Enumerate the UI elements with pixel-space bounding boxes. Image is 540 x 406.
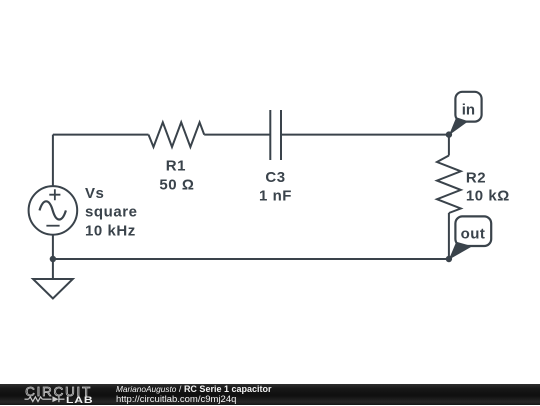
svg-text:C3: C3	[265, 169, 285, 186]
svg-text:square: square	[85, 204, 138, 221]
svg-text:R2: R2	[466, 169, 486, 186]
svg-text:in: in	[462, 102, 475, 119]
svg-text:10 kΩ: 10 kΩ	[466, 188, 510, 205]
svg-text:10 kHz: 10 kHz	[85, 222, 136, 239]
svg-text:R1: R1	[166, 157, 186, 174]
svg-text:1 nF: 1 nF	[259, 187, 292, 204]
svg-text:Vs: Vs	[85, 185, 104, 202]
svg-text:50 Ω: 50 Ω	[159, 177, 194, 194]
svg-text:out: out	[461, 226, 486, 243]
